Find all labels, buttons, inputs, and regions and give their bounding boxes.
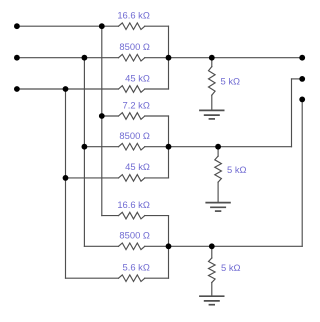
svg-text:45 kΩ: 45 kΩ <box>125 161 150 172</box>
node: group-1 shunt tap <box>209 55 215 61</box>
node: left terminal 3 <box>14 86 20 92</box>
wire: group-2 right bus vertical <box>168 116 170 178</box>
resistor R11 5 kOhm (group 2 shunt) body and leads <box>217 147 219 156</box>
node: right terminal 2 <box>299 76 305 82</box>
resistor R7 16.6 kΩ body <box>119 212 145 219</box>
wire: R6 right lead to group-2 right bus <box>145 177 169 179</box>
resistor R4 7.2 kΩ body <box>119 113 145 120</box>
wire: left bus A vertical (input 1) <box>101 26 103 215</box>
node: bus C junction row 3 <box>63 86 69 92</box>
resistor R6 45 kΩ body <box>119 175 145 182</box>
svg-text:5 kΩ: 5 kΩ <box>227 164 247 175</box>
ground (group 2) <box>205 203 230 212</box>
node: left terminal 2 <box>14 55 20 61</box>
wire: R8 right lead / group-3 output run <box>145 245 302 247</box>
wire: R5 right lead / group-2 output to riser <box>145 146 292 148</box>
node: group-3 shunt tap <box>209 243 215 249</box>
wire: bus B elbow to R8 left lead <box>84 245 118 247</box>
svg-text:16.6 kΩ: 16.6 kΩ <box>117 10 150 21</box>
resistor R3 45 kΩ body <box>119 86 145 93</box>
node: bus A junction row 1 <box>99 23 105 29</box>
svg-text:8500 Ω: 8500 Ω <box>119 230 149 241</box>
node: group-3 right bus junction <box>166 243 172 249</box>
node: bus B junction row 2 <box>82 55 88 61</box>
wire: bus C to R6 left lead <box>66 177 119 179</box>
node: left terminal 1 <box>14 23 20 29</box>
resistor R10 5 kOhm (group 1 shunt) body and leads <box>211 58 213 67</box>
wire: group-3 right bus vertical <box>168 216 170 279</box>
wire: bus A elbow to R7 left lead <box>102 215 119 217</box>
wire: R4 right lead to group-2 right bus <box>145 115 169 117</box>
svg-text:8500 Ω: 8500 Ω <box>119 41 149 52</box>
wire: R3 right lead to group-1 right bus <box>145 88 169 90</box>
wire: R2 right lead / group-1 output to right terminal 1 <box>145 57 302 59</box>
resistor R5 8500 Ω body <box>119 143 145 150</box>
wire: input 2 from terminal to R2 <box>17 57 119 59</box>
node: bus B junction row 5 <box>82 144 88 150</box>
ground (group 1) <box>199 110 224 119</box>
wire: riser to right terminal 3 <box>301 99 303 246</box>
wire: left bus B vertical (input 2) <box>83 58 85 247</box>
wire: R9 right lead to group-3 right bus <box>145 277 169 279</box>
wire: group-1 right bus vertical <box>168 26 170 89</box>
node: bus A junction row 4 <box>99 113 105 119</box>
wire: bus B to R5 left lead <box>84 146 118 148</box>
svg-text:45 kΩ: 45 kΩ <box>125 72 150 83</box>
wire: bus C elbow to R9 left lead <box>66 277 119 279</box>
wire: R1 right lead to group-1 right bus <box>145 25 169 27</box>
svg-text:16.6 kΩ: 16.6 kΩ <box>117 199 150 210</box>
node: group-2 right bus junction <box>166 144 172 150</box>
resistor R9 5.6 kΩ body <box>119 275 145 282</box>
node: bus C junction row 6 <box>63 175 69 181</box>
resistor R1 16.6 kΩ body <box>119 23 145 30</box>
node: group-2 shunt tap <box>215 144 221 150</box>
svg-text:7.2 kΩ: 7.2 kΩ <box>123 99 150 110</box>
resistor R8 8500 Ω body <box>119 243 145 250</box>
wire: R7 right lead to group-3 right bus <box>145 215 169 217</box>
wire: input 3 from terminal to R3 <box>17 88 119 90</box>
wire: bus A to R4 left lead <box>102 115 119 117</box>
wire: riser to right terminal 2 <box>291 79 293 147</box>
wire: left bus C vertical (input 3) <box>65 89 67 278</box>
node: group-1 right bus junction <box>166 55 172 61</box>
resistor R12 5 kOhm (group 3 shunt) body and leads <box>211 246 213 258</box>
svg-text:5 kΩ: 5 kΩ <box>221 76 241 87</box>
svg-text:5 kΩ: 5 kΩ <box>221 262 241 273</box>
resistor R2 8500 Ω body <box>119 54 145 61</box>
node: right terminal 1 <box>299 55 305 61</box>
node: right terminal 3 <box>299 97 305 103</box>
wire: input 1 from terminal to R1 <box>17 25 119 27</box>
svg-text:8500 Ω: 8500 Ω <box>119 130 149 141</box>
ground (group 3) <box>199 296 224 305</box>
svg-text:5.6 kΩ: 5.6 kΩ <box>123 262 150 273</box>
